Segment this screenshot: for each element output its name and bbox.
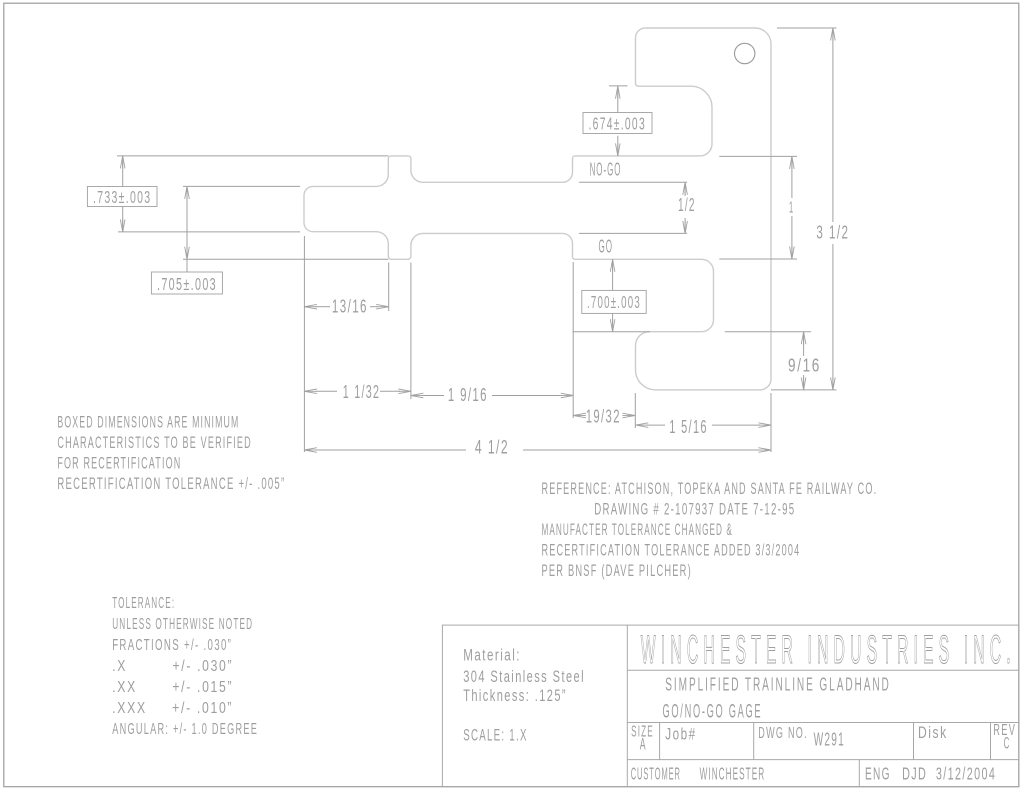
svg-text:PER BNSF (DAVE PILCHER): PER BNSF (DAVE PILCHER) (542, 561, 692, 580)
title block frame (442, 625, 1018, 787)
gage part outline (304, 28, 771, 390)
ext vertical x=304.4 (303, 236, 305, 452)
ext line tab bottom y=85.9 (609, 85, 628, 87)
svg-text:DRAWING # 2-107937 DATE 7-12-9: DRAWING # 2-107937 DATE 7-12-95 (594, 499, 795, 518)
dim 1 1/32 (316, 390, 337, 392)
dim 1 9/16 (422, 395, 444, 397)
size row verticals (659, 723, 661, 760)
svg-text:.XX +/- .015”: .XX +/- .015” (112, 679, 233, 696)
dim box .700 (582, 290, 646, 313)
ext line plate top left y=331.7 (573, 331, 651, 333)
dim 4 1/2 (316, 449, 466, 451)
svg-text:9/16: 9/16 (788, 356, 821, 376)
mounting hole (735, 43, 755, 63)
svg-text:SCALE: 1.X: SCALE: 1.X (463, 725, 528, 744)
svg-text:MANUFACTER TOLERANCE CHANGED &: MANUFACTER TOLERANCE CHANGED & (542, 520, 733, 539)
svg-text:FOR RECERTIFICATION: FOR RECERTIFICATION (57, 453, 181, 472)
svg-text:Material:: Material: (463, 646, 521, 665)
svg-text:1 9/16: 1 9/16 (448, 384, 488, 405)
svg-text:REFERENCE: ATCHISON, TOPEKA AN: REFERENCE: ATCHISON, TOPEKA AND SANTA FE… (542, 479, 878, 498)
dim .705 leader (186, 186, 188, 272)
dim 13/16 (315, 306, 330, 308)
title block divider vertical main (626, 625, 628, 787)
subtitle row line (627, 722, 1019, 724)
svg-text:.705±.003: .705±.003 (157, 274, 217, 294)
svg-text:CHARACTERISTICS TO BE VERIFIED: CHARACTERISTICS TO BE VERIFIED (57, 433, 251, 452)
svg-text:FRACTIONS +/- .030”: FRACTIONS +/- .030” (112, 637, 232, 654)
ext line beam top-left y=186.4 (183, 185, 300, 187)
title row line (627, 669, 1019, 671)
svg-text:1 5/16: 1 5/16 (669, 417, 708, 437)
dim box .733 (87, 187, 157, 207)
svg-text:4 1/2: 4 1/2 (475, 437, 509, 458)
svg-text:304 Stainless Steel: 304 Stainless Steel (463, 667, 585, 686)
dim 19/32 (573, 413, 586, 418)
customer row vertical (858, 760, 860, 787)
svg-text:1/2: 1/2 (678, 195, 696, 215)
svg-text:Thickness: .125”: Thickness: .125” (463, 686, 567, 705)
dim 1 5/16 (647, 424, 665, 426)
dim .700 leader (612, 259, 614, 290)
svg-text:.700±.003: .700±.003 (587, 292, 641, 312)
ext vertical x=771 (770, 393, 772, 452)
ext vertical x=573.2 (572, 262, 574, 418)
svg-text:SIMPLIFIED TRAINLINE GLADHAND: SIMPLIFIED TRAINLINE GLADHAND (665, 674, 890, 695)
ext vertical x=635.3 (634, 393, 636, 428)
svg-text:DJD 3/12/2004: DJD 3/12/2004 (902, 764, 996, 784)
svg-text:Job#: Job# (665, 725, 696, 744)
svg-text:GO: GO (599, 237, 614, 257)
svg-text:Disk: Disk (918, 723, 948, 742)
ext line bottom y=389.9 (771, 389, 837, 391)
svg-text:.733±.003: .733±.003 (93, 187, 151, 207)
svg-text:TOLERANCE:: TOLERANCE: (112, 595, 175, 612)
svg-text:A: A (640, 736, 647, 754)
dim 3 1/2 (832, 28, 834, 222)
svg-text:19/32: 19/32 (586, 406, 621, 426)
ext line beam top right y=182.3 (579, 181, 687, 183)
ext line tab top y=155.9 (117, 155, 388, 157)
svg-text:RECERTIFICATION TOLERANCE ADDE: RECERTIFICATION TOLERANCE ADDED 3/3/2004 (542, 541, 801, 560)
svg-text:DWG NO.: DWG NO. (758, 725, 808, 742)
svg-text:3 1/2: 3 1/2 (816, 223, 849, 243)
svg-text:UNLESS OTHERWISE NOTED: UNLESS OTHERWISE NOTED (112, 616, 253, 633)
svg-text:13/16: 13/16 (332, 297, 368, 317)
svg-text:ENG: ENG (865, 764, 891, 784)
svg-text:1: 1 (789, 200, 795, 217)
ext vertical x=388.7 (388, 263, 390, 312)
svg-text:NO-GO: NO-GO (590, 160, 622, 180)
ext line beam bottom right y=234 (579, 232, 687, 234)
svg-text:W291: W291 (814, 730, 845, 750)
ext line beam bottom-left y=231.9 (118, 231, 300, 233)
svg-text:WINCHESTER INDUSTRIES INC.: WINCHESTER INDUSTRIES INC. (641, 628, 1016, 672)
dim box .674 (583, 113, 652, 134)
dim 9/16 (803, 332, 805, 356)
size row line (627, 759, 1019, 761)
svg-text:1 1/32: 1 1/32 (343, 381, 381, 402)
svg-text:C: C (1004, 734, 1011, 752)
svg-text:.674±.003: .674±.003 (589, 113, 647, 133)
svg-text:ANGULAR: +/- 1.0 DEGREE: ANGULAR: +/- 1.0 DEGREE (112, 721, 258, 738)
ext line top y=28 (777, 27, 837, 29)
dim box .705 (151, 272, 222, 294)
svg-text:GO/NO-GO GAGE: GO/NO-GO GAGE (663, 702, 763, 723)
svg-text:CUSTOMER: CUSTOMER (631, 764, 681, 784)
svg-text:.XXX +/- .010”: .XXX +/- .010” (112, 700, 233, 717)
ext lines for dim 1 (719, 155, 797, 157)
dim .733 leader (122, 156, 124, 187)
svg-text:WINCHESTER: WINCHESTER (700, 764, 766, 784)
ext line plate top y=331.7 (725, 331, 811, 333)
svg-text:.X +/- .030”: .X +/- .030” (112, 658, 233, 675)
ext line tab bottom y=259.3 (183, 258, 388, 260)
ext vertical x=410.9 (410, 263, 412, 400)
svg-text:RECERTIFICATION TOLERANCE +/-: RECERTIFICATION TOLERANCE +/- .005” (57, 474, 285, 493)
dim 1/2 (684, 182, 686, 196)
dim .674 leader (617, 86, 619, 112)
svg-text:BOXED DIMENSIONS ARE MINIMUM: BOXED DIMENSIONS ARE MINIMUM (57, 412, 239, 431)
dim 1 (791, 156, 793, 198)
